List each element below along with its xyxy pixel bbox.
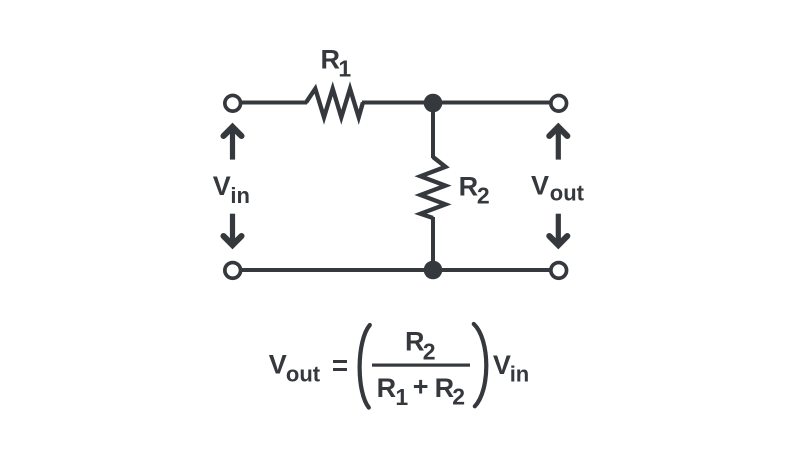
svg-text:R: R — [321, 44, 341, 74]
svg-text:V: V — [269, 349, 287, 379]
svg-text:V: V — [531, 170, 549, 200]
formula Vin — [493, 350, 529, 386]
arrow Vin down — [224, 214, 242, 245]
wire top-left segment — [242, 101, 308, 105]
svg-text:R: R — [459, 172, 479, 202]
terminal output top — [551, 95, 567, 111]
arrow Vout up — [549, 127, 567, 160]
terminal output bottom — [551, 263, 567, 279]
wire from R2 to bottom node — [431, 217, 435, 270]
svg-text:in: in — [230, 183, 250, 208]
svg-text:V: V — [493, 350, 511, 380]
node top junction — [424, 94, 443, 113]
wire top-right segment — [362, 101, 550, 105]
formula fraction bar — [372, 364, 470, 367]
formula left parenthesis — [360, 325, 370, 408]
svg-text:out: out — [550, 181, 585, 206]
svg-text:V: V — [213, 171, 231, 201]
resistor R1 — [306, 89, 363, 118]
arrow Vout down — [549, 214, 567, 245]
svg-text:1: 1 — [338, 55, 351, 81]
label R1 — [321, 44, 352, 81]
node bottom junction — [424, 261, 443, 280]
terminal input bottom — [225, 263, 241, 279]
label Vout — [531, 170, 585, 205]
formula numerator R2 — [405, 327, 436, 365]
wire from top node down — [431, 103, 435, 159]
resistor R2 — [421, 157, 446, 218]
svg-text:2: 2 — [452, 383, 465, 409]
svg-text:in: in — [510, 361, 530, 386]
label R2 — [459, 172, 490, 209]
formula equals sign — [333, 360, 347, 371]
formula Vout — [269, 349, 321, 386]
formula denominator R1 + R2 — [377, 371, 465, 409]
wire bottom — [242, 268, 551, 272]
svg-text:out: out — [286, 362, 321, 387]
svg-text:2: 2 — [423, 339, 436, 365]
formula right parenthesis — [474, 324, 487, 406]
svg-text:2: 2 — [477, 183, 490, 209]
label Vin — [213, 171, 250, 208]
arrow Vin up — [224, 127, 242, 160]
svg-text:R: R — [377, 373, 397, 403]
svg-text:R: R — [405, 327, 425, 357]
svg-text:+: + — [413, 371, 429, 401]
terminal input top — [225, 95, 241, 111]
svg-text:1: 1 — [395, 384, 408, 410]
svg-text:R: R — [435, 373, 455, 403]
